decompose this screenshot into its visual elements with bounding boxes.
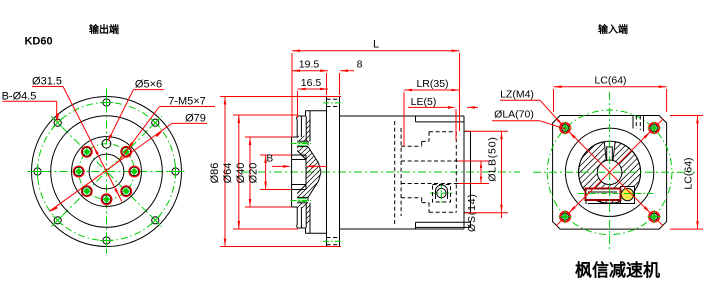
svg-text:输出端: 输出端 (89, 23, 119, 36)
svg-text:ØLB(50): ØLB(50) (487, 136, 499, 181)
svg-text:LZ(M4): LZ(M4) (500, 89, 534, 101)
svg-text:8: 8 (357, 59, 363, 71)
svg-text:B-Ø4.5: B-Ø4.5 (2, 91, 37, 103)
svg-text:LR(35): LR(35) (416, 78, 448, 90)
svg-text:Ø86: Ø86 (209, 163, 221, 184)
svg-text:Ø31.5: Ø31.5 (32, 76, 62, 88)
svg-text:19.5: 19.5 (299, 59, 320, 71)
svg-text:KD60: KD60 (24, 36, 52, 48)
svg-text:ØLA(70): ØLA(70) (494, 109, 534, 121)
svg-text:输入端: 输入端 (598, 23, 628, 36)
svg-text:Ø5×6: Ø5×6 (135, 79, 162, 91)
svg-text:Ø79: Ø79 (185, 113, 206, 125)
svg-text:Ø40: Ø40 (235, 163, 247, 184)
svg-text:LC(64): LC(64) (594, 75, 626, 87)
svg-text:L: L (373, 39, 379, 51)
svg-text:B: B (266, 154, 273, 165)
svg-text:LC(64): LC(64) (683, 157, 695, 189)
svg-text:枫信减速机: 枫信减速机 (575, 260, 660, 280)
svg-text:Ø20: Ø20 (248, 163, 260, 184)
svg-text:7-M5×7: 7-M5×7 (168, 96, 206, 108)
svg-text:16.5: 16.5 (301, 77, 322, 89)
svg-text:Ø64: Ø64 (222, 163, 234, 184)
svg-text:LE(5): LE(5) (411, 96, 437, 108)
